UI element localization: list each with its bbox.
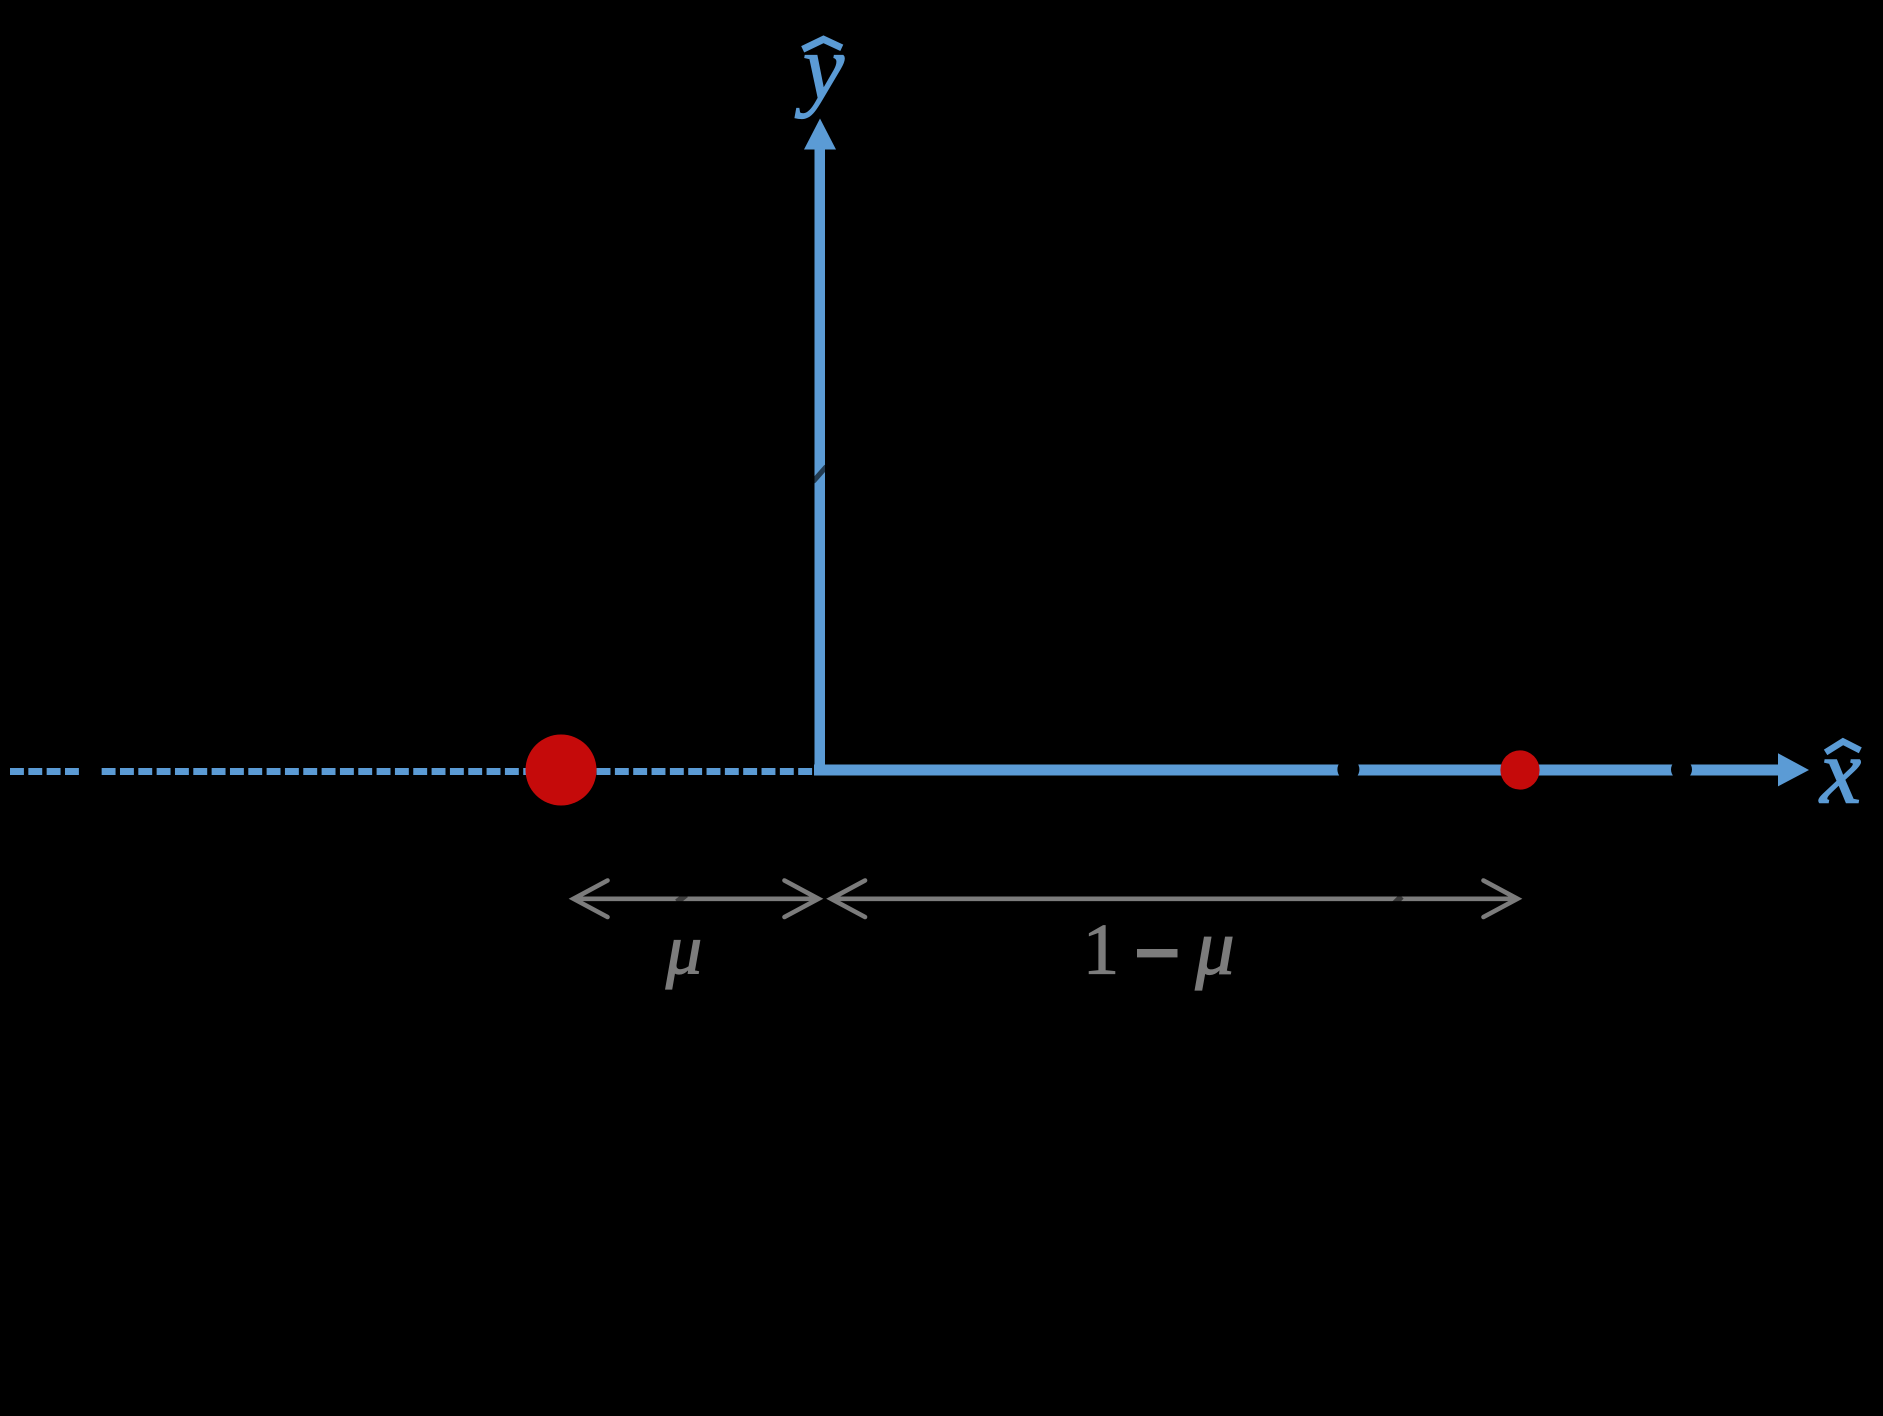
primary body m1 (large red dot) — [526, 735, 597, 806]
tick: dark slash on 1-mu arrow — [1394, 897, 1402, 905]
y-axis arrowhead — [804, 119, 836, 150]
secondary body m2 (small red dot) — [1500, 750, 1539, 789]
label 1 - mu — [1083, 904, 1235, 991]
svg-text:x: x — [1818, 721, 1861, 823]
x-axis arrowhead — [1778, 753, 1809, 786]
dimension arrow mu (double headed) — [574, 881, 819, 918]
node: L2 black dot — [1671, 759, 1692, 780]
node: x-axis label xhat — [1818, 721, 1861, 823]
node: L1 black dot — [1337, 759, 1359, 781]
node: y-axis label yhat — [795, 16, 845, 119]
tick: dark slash on mu arrow — [677, 895, 686, 902]
wire: solid positive x-axis — [814, 765, 1779, 776]
node: L3 black dot — [79, 761, 101, 783]
dimension arrow 1-mu (double headed) — [831, 881, 1518, 918]
svg-text:μ: μ — [665, 910, 702, 990]
svg-text:y: y — [795, 16, 845, 119]
svg-text:μ: μ — [1194, 904, 1234, 991]
tick: dark slash on y-axis — [814, 467, 826, 481]
wire: dashed negative x-axis — [10, 768, 813, 775]
y-axis shaft — [815, 145, 826, 775]
svg-text:1: 1 — [1083, 909, 1119, 989]
